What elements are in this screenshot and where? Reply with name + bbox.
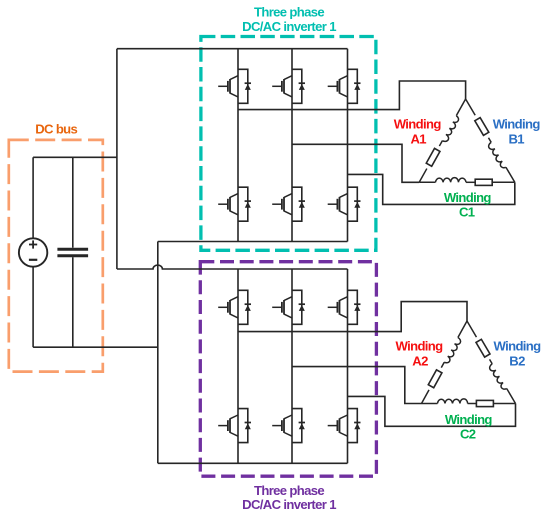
IGBT Q9 bbox=[328, 297, 348, 318]
IGBT Q2 bbox=[272, 76, 292, 97]
diode D6 bbox=[348, 187, 361, 221]
IGBT Q10 bbox=[218, 415, 238, 436]
IGBT Q3 bbox=[328, 76, 348, 97]
diode D1 bbox=[238, 69, 251, 103]
svg-text:Three phase: Three phase bbox=[254, 5, 324, 20]
wire DC+ rail vertical bbox=[116, 49, 118, 269]
winding C1 inductor bbox=[419, 181, 435, 183]
svg-text:DC/AC inverter 1: DC/AC inverter 1 bbox=[242, 497, 336, 512]
wire phase A2 bbox=[238, 302, 467, 332]
svg-text:Three phase: Three phase bbox=[254, 483, 324, 498]
svg-text:B1: B1 bbox=[508, 132, 524, 147]
capacitor C (dc-link) bbox=[72, 157, 74, 247]
wire DC- bus (inverter 2) bbox=[158, 462, 348, 464]
diode D12 bbox=[348, 409, 361, 443]
wire DC bus bottom bbox=[33, 346, 158, 348]
IGBT Q12 bbox=[328, 415, 348, 436]
diode D5 bbox=[292, 187, 305, 221]
wire DC bus top bbox=[33, 156, 117, 158]
winding B2 inductor bbox=[490, 364, 507, 389]
svg-text:Winding: Winding bbox=[396, 339, 444, 354]
wire DC- bus (inverter 1) bbox=[158, 241, 348, 243]
wire DC+ top bus (inverter 1) bbox=[117, 48, 348, 50]
svg-text:C2: C2 bbox=[460, 426, 476, 441]
wire DC+ to inverter 2 with hop bbox=[117, 265, 348, 269]
svg-text:Winding: Winding bbox=[494, 339, 542, 354]
svg-text:Winding: Winding bbox=[445, 412, 493, 427]
svg-text:Winding: Winding bbox=[444, 190, 492, 205]
winding A2 inductor bbox=[458, 321, 467, 338]
wire phase B2 bbox=[292, 367, 422, 404]
svg-text:B2: B2 bbox=[509, 354, 525, 369]
wire phase A1 bbox=[238, 81, 466, 110]
winding A1 resistor bbox=[426, 148, 440, 166]
winding A2 resistor bbox=[428, 370, 442, 388]
diode D2 bbox=[292, 69, 305, 103]
diode D3 bbox=[348, 69, 361, 103]
wire inverter-2 leg 2 bbox=[291, 269, 293, 463]
svg-text:Winding: Winding bbox=[394, 117, 442, 132]
wire inverter-2 leg 1 bbox=[237, 269, 239, 463]
wire V1 top bbox=[32, 157, 34, 238]
winding A1 inductor bbox=[456, 99, 465, 116]
IGBT Q5 bbox=[272, 194, 292, 215]
wire V1 bottom bbox=[32, 267, 34, 348]
winding C2 resistor bbox=[476, 400, 493, 406]
IGBT Q4 bbox=[218, 194, 238, 215]
winding C1 resistor bbox=[475, 179, 492, 185]
diode D7 bbox=[238, 290, 251, 324]
IGBT Q8 bbox=[272, 297, 292, 318]
diode D11 bbox=[292, 409, 305, 443]
IGBT Q7 bbox=[218, 297, 238, 318]
three-phase DC/AC inverter 2 (bottom) dashed box bbox=[200, 262, 376, 477]
wire DC- rail vertical bbox=[157, 242, 159, 464]
IGBT Q1 bbox=[218, 76, 238, 97]
wire phase C2 bbox=[348, 396, 516, 426]
winding B1 resistor bbox=[466, 99, 476, 115]
DC source V1 bbox=[19, 238, 47, 266]
three-phase DC/AC inverter 1 (top) dashed box bbox=[201, 37, 376, 251]
svg-text:DC bus: DC bus bbox=[35, 122, 77, 137]
diode D10 bbox=[238, 409, 251, 443]
svg-text:A1: A1 bbox=[410, 132, 426, 147]
wire inverter-2 leg 3 bbox=[347, 269, 349, 463]
diode D4 bbox=[238, 187, 251, 221]
svg-text:DC/AC inverter 1: DC/AC inverter 1 bbox=[242, 19, 336, 34]
wire phase C1 bbox=[348, 174, 515, 204]
diode D8 bbox=[292, 290, 305, 324]
wire inverter-1 leg 1 bbox=[237, 49, 239, 242]
IGBT Q6 bbox=[328, 194, 348, 215]
winding B1 inductor bbox=[489, 142, 506, 167]
wire phase B1 bbox=[292, 144, 419, 182]
winding C2 inductor bbox=[422, 403, 438, 405]
svg-text:Winding: Winding bbox=[493, 117, 541, 132]
wire inverter-1 leg 3 bbox=[347, 49, 349, 242]
IGBT Q11 bbox=[272, 415, 292, 436]
diode D9 bbox=[348, 290, 361, 324]
svg-text:A2: A2 bbox=[412, 354, 428, 369]
DC bus dashed box bbox=[9, 140, 103, 372]
winding B2 resistor bbox=[467, 321, 476, 337]
svg-text:C1: C1 bbox=[459, 204, 475, 219]
wire inverter-1 leg 2 bbox=[291, 49, 293, 242]
